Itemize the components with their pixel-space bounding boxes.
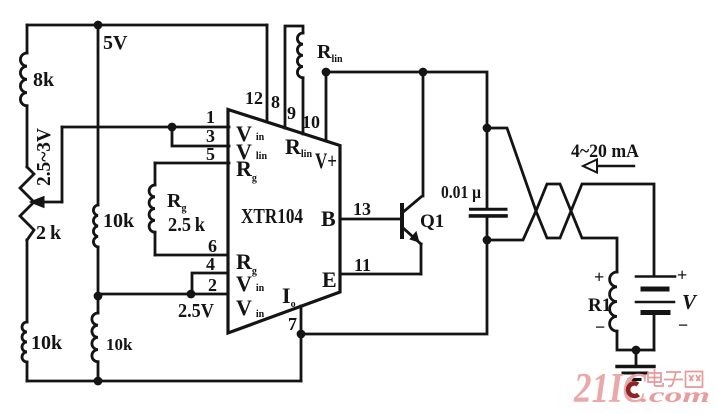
resistor 10k (left rail) bbox=[22, 322, 27, 362]
svg-text:4~20 mA: 4~20 mA bbox=[571, 141, 639, 162]
svg-text:11: 11 bbox=[354, 255, 371, 275]
svg-text:8: 8 bbox=[271, 92, 280, 112]
svg-text:+: + bbox=[677, 265, 687, 285]
wire top supply rail bbox=[27, 24, 267, 27]
pin number 11 bbox=[354, 255, 371, 275]
pin number 2 bbox=[208, 275, 217, 295]
pin number 9 bbox=[287, 103, 296, 123]
svg-text:10: 10 bbox=[302, 112, 320, 132]
label Vin pin1 bbox=[236, 121, 265, 146]
label 10k left rail bbox=[31, 332, 63, 354]
node loop lower terminal bbox=[483, 236, 492, 245]
wire potentiometer wiper arrow bbox=[30, 197, 62, 208]
label 2k bbox=[36, 222, 62, 244]
wire pin 13 to base bbox=[341, 218, 402, 221]
label R1 bbox=[588, 295, 611, 316]
wire wiper vertical 2.5-3V bbox=[61, 127, 64, 202]
resistor 10k (5V rail lower) bbox=[92, 313, 98, 362]
svg-text:13: 13 bbox=[353, 199, 371, 219]
wire pin 4 with jog bbox=[192, 273, 228, 294]
wire to pin 1 bbox=[62, 126, 229, 129]
wire pin 6 bbox=[155, 254, 228, 257]
wire twisted pair lower conductor bbox=[487, 184, 617, 272]
label Vin pin2 bbox=[236, 295, 265, 320]
op-amp U1 XTR104 outline bbox=[228, 110, 340, 334]
ground bbox=[617, 367, 654, 380]
node collector junction bbox=[419, 68, 428, 77]
resistor Rlin coil bbox=[297, 33, 303, 78]
svg-text:0.01 μ: 0.01 μ bbox=[441, 182, 481, 202]
wire 2.5V reference to pin 2 bbox=[98, 293, 228, 296]
node loop upper terminal bbox=[483, 124, 492, 133]
label XTR104 bbox=[241, 204, 303, 228]
wire pin 10 riser to Rlin node bbox=[325, 72, 328, 141]
resistor R1 bbox=[610, 272, 617, 331]
pin number 5 bbox=[206, 144, 215, 164]
svg-text:6: 6 bbox=[208, 236, 217, 256]
wire bottom ground rail bbox=[27, 380, 301, 383]
label battery V bbox=[682, 290, 698, 314]
wire pin 5 bbox=[155, 162, 229, 165]
pin number 8 bbox=[271, 92, 280, 112]
label Vin pin4 bbox=[236, 271, 265, 296]
wire pin 8 riser and loop top bbox=[285, 26, 303, 128]
svg-text:3: 3 bbox=[206, 126, 215, 146]
label 2.5~3V bbox=[33, 127, 55, 186]
svg-text:2 k: 2 k bbox=[36, 222, 62, 244]
label 10k upper bbox=[103, 210, 135, 232]
svg-text:2.5 k: 2.5 k bbox=[168, 214, 206, 236]
label 8k bbox=[33, 69, 55, 91]
svg-text:V+: V+ bbox=[315, 148, 337, 173]
current direction arrow 4-20mA bbox=[583, 160, 634, 173]
wire Rg loop left upper bbox=[154, 163, 157, 185]
wire left rail middle bbox=[26, 106, 29, 167]
wire Rg loop left lower bbox=[154, 232, 157, 255]
label E bbox=[322, 267, 337, 292]
label 2.5k bbox=[168, 214, 206, 236]
wire return line to pin 7 bbox=[301, 240, 487, 334]
svg-text:12: 12 bbox=[245, 88, 263, 108]
svg-text:Rg: Rg bbox=[167, 190, 186, 214]
svg-text:Q1: Q1 bbox=[420, 211, 444, 232]
node battery ground tap bbox=[632, 346, 641, 355]
wire left rail top bbox=[26, 25, 29, 53]
transistor Q1 bbox=[402, 197, 421, 244]
watermark 21IC.com logo bbox=[573, 366, 710, 412]
label V+ bbox=[315, 148, 337, 173]
wire left rail lower bbox=[26, 240, 29, 322]
svg-text:10k: 10k bbox=[103, 210, 135, 232]
battery V bbox=[636, 277, 675, 351]
svg-text:XTR104: XTR104 bbox=[241, 204, 303, 228]
svg-text:−: − bbox=[678, 315, 688, 335]
wire pin 11 to emitter bbox=[341, 273, 421, 276]
svg-text:E: E bbox=[322, 267, 337, 292]
wire ground stub bbox=[635, 350, 638, 365]
resistor 10k (5V rail upper) bbox=[93, 205, 98, 247]
svg-text:2: 2 bbox=[208, 275, 217, 295]
wire 5V rail middle bbox=[97, 247, 100, 313]
svg-text:Vin: Vin bbox=[236, 295, 265, 320]
svg-text:7: 7 bbox=[288, 314, 297, 334]
capacitor C1 0.01u bbox=[471, 209, 507, 216]
svg-text:Vin: Vin bbox=[236, 271, 265, 296]
svg-text:2.5V: 2.5V bbox=[178, 300, 214, 322]
resistor 8k bbox=[20, 53, 27, 106]
pin number 10 bbox=[302, 112, 320, 132]
wire left rail bottom bbox=[26, 362, 29, 381]
svg-text:10k: 10k bbox=[31, 332, 63, 354]
pin number 4 bbox=[206, 254, 215, 274]
wire pin 9 bbox=[302, 78, 305, 134]
svg-text:Io: Io bbox=[282, 283, 296, 310]
label Io bbox=[282, 283, 296, 310]
node bottom rail junction bbox=[94, 377, 103, 386]
node Rlin terminal bbox=[322, 68, 331, 77]
label 10k lower bbox=[106, 335, 133, 354]
svg-text:2.5~3V: 2.5~3V bbox=[33, 127, 55, 186]
label Rg bbox=[167, 190, 186, 214]
svg-text:21IC: 21IC bbox=[573, 366, 647, 412]
wire pin 12 drop from 5V rail bbox=[266, 25, 269, 122]
svg-text:5: 5 bbox=[206, 144, 215, 164]
label Rlin node bbox=[317, 41, 343, 65]
svg-text:+: + bbox=[594, 267, 604, 287]
label 0.01u bbox=[441, 182, 481, 202]
node pin 7 junction bbox=[297, 330, 306, 339]
label R1 plus bbox=[594, 267, 604, 287]
label battery minus bbox=[678, 315, 688, 335]
wire emitter down bbox=[420, 244, 423, 274]
wire pin 7 drop to ground rail bbox=[300, 306, 303, 381]
pin number 12 bbox=[245, 88, 263, 108]
svg-text:B: B bbox=[321, 206, 336, 231]
svg-text:8k: 8k bbox=[33, 69, 55, 91]
pin number 13 bbox=[353, 199, 371, 219]
wire capacitor bottom lead bbox=[486, 216, 489, 240]
svg-text:Rlin: Rlin bbox=[285, 134, 312, 160]
label 4~20 mA bbox=[571, 141, 639, 162]
node 2.5V junction bbox=[187, 290, 196, 299]
node pin1/pin3 tap bbox=[168, 123, 177, 132]
svg-text:4: 4 bbox=[206, 254, 215, 274]
label 5V bbox=[103, 32, 128, 54]
label Rlin internal bbox=[285, 134, 312, 160]
resistor Rg 2.5k bbox=[149, 185, 155, 232]
svg-text:Rlin: Rlin bbox=[317, 41, 343, 65]
node 5V-rail mid junction bbox=[94, 292, 103, 301]
label Rg pin5 bbox=[236, 156, 257, 184]
wire 5V rail bottom bbox=[97, 362, 100, 381]
svg-text:R1: R1 bbox=[588, 295, 611, 316]
label battery plus bbox=[677, 265, 687, 285]
svg-text:1: 1 bbox=[206, 107, 215, 127]
wire top right run to loop terminal bbox=[326, 72, 487, 128]
label R1 minus bbox=[595, 317, 605, 337]
pin number 7 bbox=[288, 314, 297, 334]
svg-text:9: 9 bbox=[287, 103, 296, 123]
svg-text:−: − bbox=[595, 317, 605, 337]
wire R1 bottom to battery bbox=[617, 331, 654, 350]
pin number 1 bbox=[206, 107, 215, 127]
label B bbox=[321, 206, 336, 231]
wire capacitor top lead bbox=[486, 128, 489, 209]
label Rg pin6 bbox=[236, 249, 257, 277]
wire twisted pair upper conductor bbox=[487, 128, 654, 276]
svg-text:5V: 5V bbox=[103, 32, 128, 54]
potentiometer 2k element bbox=[20, 167, 34, 240]
svg-text:10k: 10k bbox=[106, 335, 133, 354]
label Vlin pin3 bbox=[236, 139, 267, 164]
wire jog to pin 3 bbox=[172, 127, 229, 146]
pin number 6 bbox=[208, 236, 217, 256]
wire Q1 collector riser bbox=[422, 72, 425, 196]
label 2.5V bbox=[178, 300, 214, 322]
svg-text:Rg: Rg bbox=[236, 156, 257, 184]
label Q1 bbox=[420, 211, 444, 232]
node 5V junction bbox=[94, 21, 103, 30]
svg-text:V: V bbox=[682, 290, 698, 314]
pin number 3 bbox=[206, 126, 215, 146]
wire 5V rail upper bbox=[97, 25, 100, 205]
